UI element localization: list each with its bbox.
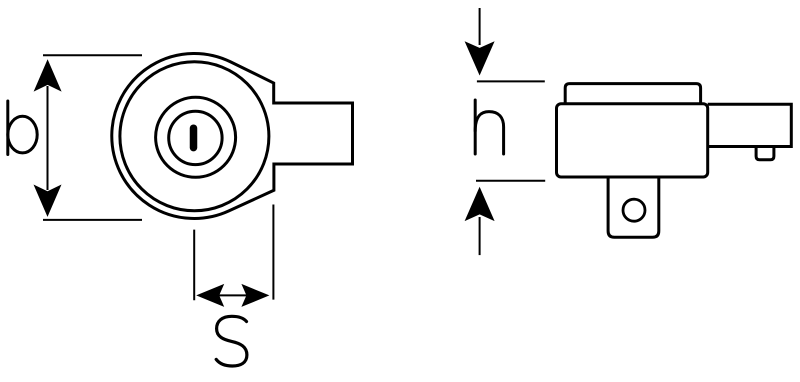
dimension S: shaft: [214, 294, 252, 296]
dimension h: top arrow shaft: [479, 8, 481, 45]
right view: square-drive tang: [608, 178, 659, 238]
dimension S: right arrowhead: [241, 284, 269, 307]
dimension b: top tick: [43, 54, 142, 56]
left view: inner circle: [120, 62, 269, 211]
label S: [216, 316, 247, 366]
dimension b: down arrowhead: [34, 185, 62, 217]
right view: top plate: [565, 84, 700, 104]
label h: [475, 100, 503, 154]
right view: nub under arm: [756, 147, 774, 160]
left view: head outline with drive tab: [112, 53, 353, 218]
left view: centre slot: [190, 128, 198, 147]
dimension S: right extension line: [272, 205, 274, 300]
dimension h: down arrowhead: [465, 41, 495, 75]
right view: pin hole: [623, 199, 645, 221]
dimension h: bottom arrow shaft: [479, 217, 481, 255]
dimension S: left extension line: [193, 230, 195, 301]
dimension b: bottom tick: [43, 219, 142, 221]
right view: right arm: [708, 104, 792, 146]
left view: drive boss circle: [156, 97, 236, 177]
label b: [8, 101, 37, 155]
left view: centre circle: [169, 111, 222, 164]
dimension S: left arrowhead: [196, 284, 224, 307]
right view: main body: [557, 104, 708, 177]
dimension h: up arrowhead: [465, 187, 495, 221]
dimension h: top tick: [477, 80, 545, 82]
dimension b: shaft: [47, 86, 49, 190]
dimension b: up arrowhead: [34, 59, 62, 91]
dimension h: bottom tick: [476, 180, 545, 182]
